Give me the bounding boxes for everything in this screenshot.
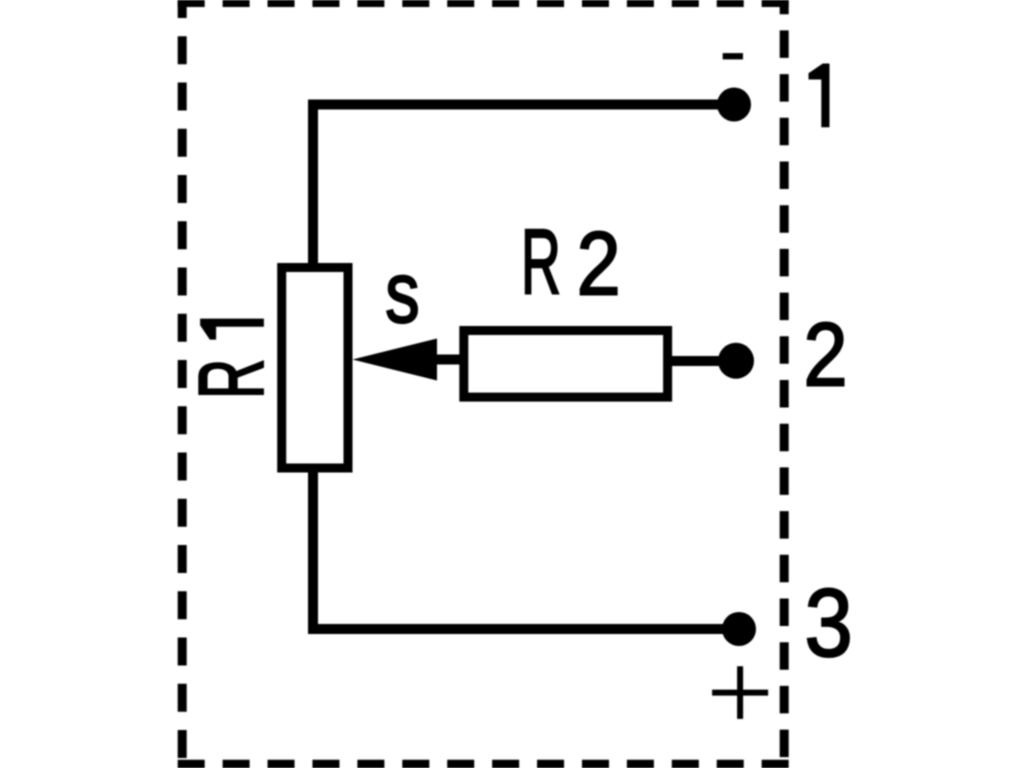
dashed enclosure border right (780, 0, 789, 768)
wire wiper arrow to R2 left (430, 355, 466, 365)
terminal 2 dot (718, 343, 754, 379)
dashed enclosure border top (178, 0, 789, 7)
svg-text:2: 2 (803, 304, 847, 405)
plus polarity mark (712, 666, 768, 719)
svg-text:3: 3 (804, 570, 852, 677)
wire from R1 bottom to terminal 3 (313, 468, 739, 629)
dashed enclosure border left (178, 0, 187, 768)
wire from R1 top to terminal 1 (313, 105, 734, 269)
resistor R2 body (464, 331, 668, 398)
svg-text:R: R (521, 211, 561, 314)
terminal label 1 (809, 64, 830, 128)
wire R2 right to terminal 2 (668, 356, 736, 366)
svg-text:s: s (385, 244, 419, 340)
svg-text:R: R (181, 359, 284, 399)
terminal 3 dot (722, 612, 756, 646)
svg-text:2: 2 (577, 213, 621, 314)
minus polarity mark (723, 53, 743, 59)
label R1 (rotated) digit 1 (200, 319, 264, 340)
terminal 1 dot (717, 88, 751, 122)
potentiometer R1 body (282, 268, 348, 469)
dashed enclosure border bottom (178, 760, 789, 768)
wiper arrow head (353, 339, 438, 381)
